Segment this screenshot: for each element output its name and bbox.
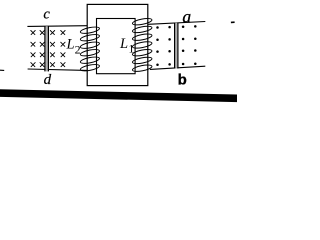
field-into-page x symbols (4x4 grid) bbox=[31, 31, 65, 67]
svg-text:d: d bbox=[44, 72, 52, 88]
slider rod ab (double line with grey core) bbox=[175, 23, 177, 69]
field-out-of-page dots (4x4 grid) bbox=[156, 25, 196, 66]
svg-text:c: c bbox=[43, 7, 50, 23]
inductor L2 coil (left limb, 6 turns) bbox=[80, 26, 100, 72]
wire: left bottom rail d-side bbox=[28, 69, 88, 70]
svg-text:b: b bbox=[178, 71, 187, 88]
transformer core outer rectangle bbox=[87, 4, 148, 85]
wire: stray dash left edge bbox=[0, 69, 4, 71]
transformer core inner window bbox=[97, 19, 136, 74]
svg-text:L: L bbox=[66, 37, 75, 53]
inductor L1 coil (right limb, 7 turns) bbox=[132, 17, 152, 72]
svg-text:2: 2 bbox=[75, 43, 81, 57]
wire: left top rail c-side bbox=[27, 25, 87, 28]
table edge black bar bbox=[0, 89, 237, 102]
svg-text:a: a bbox=[182, 7, 191, 27]
wire: right top rail continuation dash bbox=[231, 21, 235, 23]
slider rod cd (double line with grey core) bbox=[46, 26, 48, 71]
svg-text:1: 1 bbox=[128, 41, 134, 55]
wire: right top rail a-side bbox=[148, 22, 205, 25]
wire: right bottom rail b-side bbox=[150, 66, 205, 69]
svg-text:L: L bbox=[119, 36, 128, 52]
